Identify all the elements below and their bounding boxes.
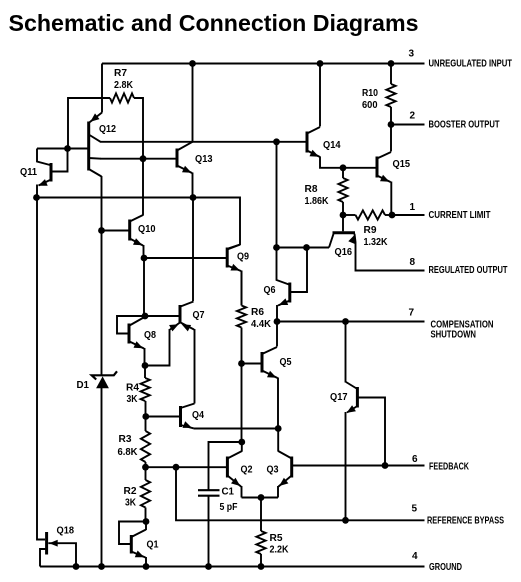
svg-text:Q17: Q17 [330, 392, 348, 403]
transistor Q8 [117, 316, 156, 366]
wire top supply rail [102, 64, 425, 113]
svg-text:R5: R5 [270, 533, 283, 544]
pin 6 FEEDBACK [292, 454, 470, 472]
svg-text:Q12: Q12 [99, 124, 116, 135]
svg-text:UNREGULATED INPUT: UNREGULATED INPUT [429, 59, 513, 70]
transistor Q6 [264, 248, 308, 322]
resistor R10 600 [362, 64, 396, 125]
wire Q11-Q12 base node [37, 148, 88, 150]
svg-text:SHUTDOWN: SHUTDOWN [431, 330, 477, 341]
pin 2 BOOSTER OUTPUT [391, 111, 500, 131]
pin 8 REGULATED OUTPUT [410, 257, 509, 276]
svg-text:REFERENCE BYPASS: REFERENCE BYPASS [427, 516, 504, 527]
svg-text:1.86K: 1.86K [305, 196, 330, 207]
wire Q4 emitter to Q3 collector [194, 428, 279, 430]
svg-text:CURRENT LIMIT: CURRENT LIMIT [429, 210, 492, 221]
node rail-B / R7 junction [140, 155, 147, 162]
node R4 top junction [142, 362, 149, 369]
wire Q6 collector-base tie [277, 247, 330, 249]
svg-text:C1: C1 [222, 487, 235, 498]
wire Q10 emitter to Q7 base [143, 258, 145, 316]
svg-text:BOOSTER OUTPUT: BOOSTER OUTPUT [429, 120, 501, 131]
svg-text:5: 5 [412, 504, 418, 515]
wire collector rail to Q14 base [100, 141, 307, 143]
svg-text:Q6: Q6 [264, 285, 276, 296]
node R2 bottom / Q1 junction [143, 518, 150, 525]
transistor Q5 [242, 322, 292, 429]
wire R6 column to Q2 collector [241, 364, 243, 443]
wire rail-A to Q6 [276, 142, 278, 248]
svg-text:Q2: Q2 [241, 465, 253, 476]
resistor R4 3K [126, 366, 150, 417]
transistor Q1 [119, 522, 159, 567]
transistor Q2 [227, 442, 252, 498]
svg-text:D1: D1 [77, 380, 90, 391]
resistor R3 6.8K [118, 417, 151, 468]
transistor Q10 [102, 159, 156, 258]
node Q17 collector junction [342, 318, 349, 325]
node top-rail / Q13 collector riser [189, 60, 196, 67]
wire Q12 collector column [101, 176, 103, 374]
node R8 / R9 / Q16 base [340, 212, 347, 219]
transistor Q13 [177, 142, 213, 198]
pin 4 GROUND [40, 551, 462, 573]
svg-text:Q4: Q4 [192, 410, 204, 421]
svg-text:1: 1 [410, 202, 416, 213]
resistor R6 4.4K [237, 271, 272, 364]
resistor R2 3K [124, 467, 151, 521]
svg-text:Q5: Q5 [280, 357, 292, 368]
svg-text:R6: R6 [251, 307, 264, 318]
node Q7 base / Q8 junction [142, 313, 149, 320]
wire Q13 emitter to Q7 collector [192, 198, 194, 302]
svg-text:R8: R8 [305, 184, 318, 195]
svg-text:6: 6 [412, 454, 418, 465]
svg-text:6.8K: 6.8K [118, 447, 139, 458]
node rail-A / Q6 branch [273, 138, 280, 145]
node tail current junction [258, 494, 265, 501]
node Q11/Q12 base junction [64, 145, 71, 152]
svg-text:2.8K: 2.8K [114, 80, 134, 91]
svg-text:Q1: Q1 [147, 540, 159, 551]
svg-text:3: 3 [409, 49, 415, 60]
svg-text:R4: R4 [126, 383, 139, 394]
node compensation junction [274, 318, 281, 325]
node feedback / Q17 base [382, 462, 389, 469]
svg-text:Q11: Q11 [20, 167, 37, 178]
transistor Q7 [145, 302, 205, 404]
node top-rail / R10 top [388, 60, 395, 67]
svg-text:R7: R7 [114, 68, 127, 79]
node ground / R5 bottom [258, 563, 265, 570]
transistor Q12 [89, 113, 117, 177]
transistor Q15 [377, 125, 410, 216]
node ground / Q18 emitter [73, 563, 80, 570]
node ground / D1 anode [98, 563, 105, 570]
pin 1 CURRENT LIMIT [392, 202, 491, 221]
svg-text:Q15: Q15 [393, 159, 411, 170]
wire divider node to Q2 base [146, 466, 227, 468]
node Q11 emitter junction [33, 194, 40, 201]
transistor Q14 [307, 64, 377, 168]
node reference bypass / Q17 emitter [342, 517, 349, 524]
zener diode D1 [77, 371, 118, 566]
node R6 bottom / Q5 base [238, 360, 245, 367]
transistor Q16 [329, 215, 425, 271]
node Q6 collector junction [273, 244, 280, 251]
node Q10 emitter junction [141, 255, 148, 262]
node Q6 base junction [303, 244, 310, 251]
node ground / Q1 emitter [143, 563, 150, 570]
wire Q13 collector riser [192, 64, 194, 142]
svg-text:Q16: Q16 [335, 247, 353, 258]
svg-text:1.32K: 1.32K [364, 237, 389, 248]
svg-text:3K: 3K [125, 498, 137, 509]
pin 5 REFERENCE BYPASS [176, 467, 504, 527]
svg-text:Q9: Q9 [237, 252, 249, 263]
svg-text:600: 600 [362, 100, 378, 111]
svg-text:Q7: Q7 [193, 310, 205, 321]
title text [9, 10, 419, 36]
svg-text:R10: R10 [362, 88, 378, 99]
node Q10 base junction [98, 227, 105, 234]
capacitor C1 5pF [198, 442, 242, 567]
svg-text:Q8: Q8 [144, 330, 156, 341]
transistor Q4 [146, 404, 204, 429]
node current limit junction [389, 212, 396, 219]
svg-text:FEEDBACK: FEEDBACK [429, 461, 469, 472]
transistor Q3 [267, 429, 292, 498]
node R4 bottom / Q4 base [142, 413, 149, 420]
node reference bypass branch [173, 464, 180, 471]
svg-text:3K: 3K [127, 394, 139, 405]
svg-text:Q10: Q10 [138, 224, 156, 235]
svg-text:8: 8 [410, 257, 416, 268]
resistor R5 2.2K [256, 498, 289, 567]
svg-text:Q13: Q13 [195, 154, 213, 165]
svg-text:R3: R3 [119, 434, 132, 445]
transistor Q17 [330, 322, 385, 521]
svg-text:2.2K: 2.2K [270, 545, 290, 556]
node R3 / R2 / Q2 base [142, 464, 149, 471]
wire Q2-Q3 emitter tie [242, 497, 279, 499]
svg-text:4: 4 [412, 551, 418, 562]
node Q14 emitter / R8 top [340, 164, 347, 171]
node Q13 emitter junction [190, 194, 197, 201]
transistor Q11 [20, 149, 68, 198]
svg-text:REGULATED OUTPUT: REGULATED OUTPUT [429, 265, 509, 276]
resistor R9 1.32K [343, 210, 392, 248]
svg-text:Q18: Q18 [57, 526, 75, 537]
node ground / C1 bottom [205, 563, 212, 570]
svg-text:5 pF: 5 pF [220, 502, 238, 513]
node booster output junction [388, 121, 395, 128]
svg-text:2: 2 [410, 111, 416, 122]
svg-text:Q3: Q3 [267, 465, 279, 476]
node top-rail / Q14 collector riser [317, 60, 324, 67]
pin 7 COMPENSATION/SHUTDOWN [277, 308, 494, 341]
svg-text:Q14: Q14 [323, 140, 341, 151]
svg-text:Schematic and Connection Diagr: Schematic and Connection Diagrams [9, 10, 419, 36]
pin 3 UNREGULATED INPUT [409, 49, 513, 70]
transistor Q18 [37, 198, 76, 567]
wire Q11 emitter to Q9 collector [37, 198, 241, 249]
node Q2 collector / C1 top [238, 439, 245, 446]
svg-text:GROUND: GROUND [429, 562, 462, 573]
svg-text:7: 7 [409, 308, 415, 319]
node Q3 collector junction [275, 425, 282, 432]
resistor R8 1.86K [305, 168, 348, 215]
wire base rail to Q13 base [101, 158, 177, 160]
svg-text:R2: R2 [124, 486, 137, 497]
svg-text:4.4K: 4.4K [251, 319, 272, 330]
transistor Q9 [144, 245, 249, 306]
svg-text:R9: R9 [364, 225, 377, 236]
resistor R7 2.8K [68, 68, 143, 159]
